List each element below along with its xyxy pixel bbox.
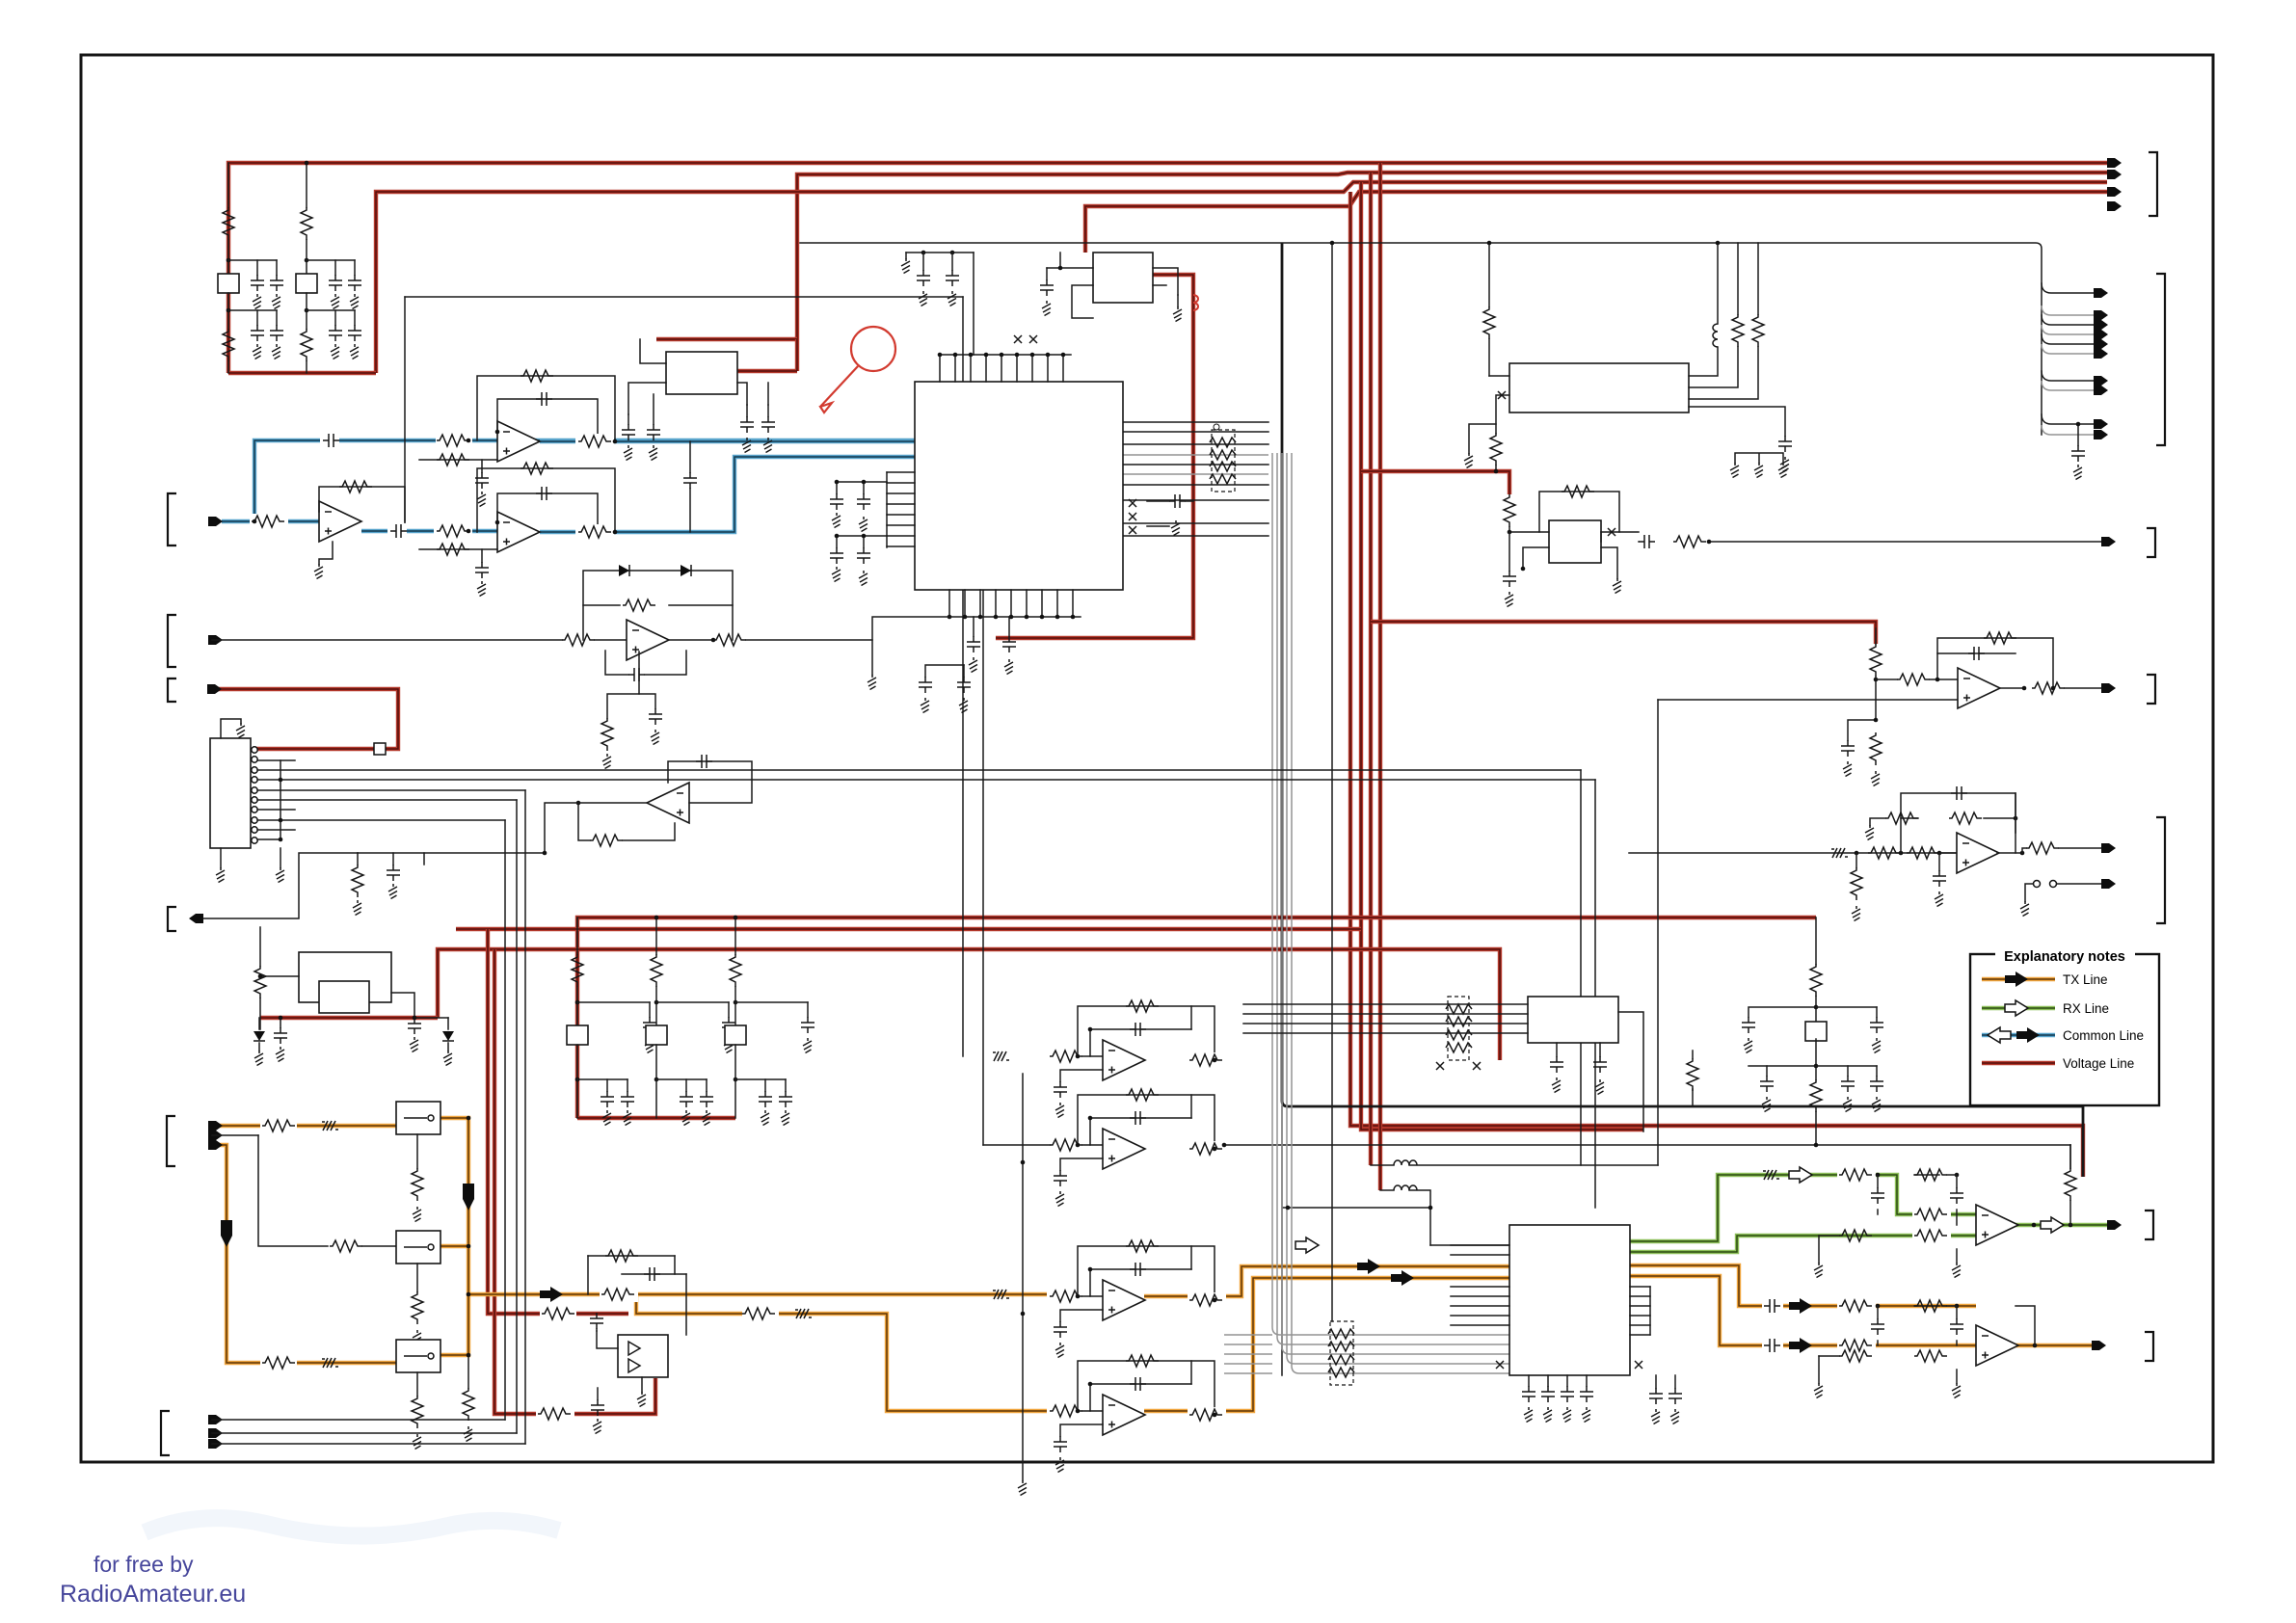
IC2 bottom caps [1655,1375,1657,1388]
tx cap B [1762,1338,1783,1353]
B7 left riser [588,1256,686,1335]
opampB out [1997,852,2022,854]
green plus resistor [1912,1228,1951,1243]
stage2 fb resistor loop [1078,1095,1215,1149]
xtal column 3 resistor [734,918,736,954]
rx line IC2 out A [1630,1175,1976,1241]
voltage line C left stub [260,1016,438,1020]
xtal column 3 crystal [725,1025,746,1045]
filter column 1 cap C1a [256,260,258,275]
CN1 pin wires [257,759,295,761]
green bead A [1763,1170,1779,1180]
right y1188 rail riser [2069,1145,2071,1168]
tx arrow into IC2 B [1391,1270,1414,1286]
stage2 fb cap loop [1090,1118,1191,1145]
resistor R20 [562,634,595,646]
xtal column 2 below [655,1045,657,1118]
regulator box B5 [299,952,391,1002]
tx out arrow [2092,1341,2106,1350]
U4 plus stub [607,652,639,718]
stage3 input resistor [1047,1289,1085,1304]
opampB gnd resistor [1855,851,1859,856]
filter column 2 mid junction [306,293,307,329]
B1 caps right [746,405,748,416]
long vertical x1382 [1331,243,1333,1321]
opampA [1958,668,2000,708]
resistor after U3 R14 [575,524,614,540]
opamp U3 [497,512,540,552]
filter column 1 cap C1c [256,310,258,325]
stage3 plus cap [1060,1310,1103,1321]
cap near B7 [597,1388,599,1399]
svg-text:Explanatory notes: Explanatory notes [2004,949,2125,965]
osc out resistor [1673,536,1706,547]
top cluster wire down [973,253,974,355]
xtal column 3 cap b [785,1079,787,1091]
filter column 2 cap C2b [354,260,356,275]
osc out arrow [2101,537,2116,546]
stage plus bus [1022,1074,1024,1480]
filter column 2 junction [305,258,309,263]
input bracket 2 [168,615,176,667]
tx in3 resistor R42 [260,1355,297,1370]
rx line final out [2015,1223,2114,1227]
xtal column 3 junction [734,1000,738,1005]
resistor on red y1467 [536,1406,574,1422]
tx input arrows [208,1121,223,1131]
opampB bracket [2156,817,2165,923]
xtal column 3 cap a [764,1079,766,1091]
osc fb resistor [1539,492,1619,532]
right filter crystal [1805,1022,1827,1041]
opampA fb cap [1937,653,2016,679]
IC1 main square IC [915,382,1123,590]
xtal column 2 top dot [654,916,659,920]
filter column 1 crystal [218,274,239,293]
B1 left pins [628,339,666,414]
opampA out [2000,687,2024,689]
wire W1 vertical [404,297,406,521]
voltage line riser to dual opamp [488,929,628,1314]
stage4 plus cap [1060,1424,1103,1436]
black bus branch continue [1281,1106,1283,1375]
IC2 right pin stubs [1630,1286,1650,1288]
opampA red feed resistor [1870,644,1882,677]
U4 fb cap [605,651,628,675]
opampA below net [1848,720,1876,740]
CN1 top gnd stub [221,719,241,738]
tx gnd resistor [1819,1355,1839,1357]
tx line switch1 out [441,1118,468,1355]
tx line switch2 out [441,1244,468,1248]
dots on blue [253,519,257,524]
tx cap A [1762,1298,1783,1314]
common line opamp3 out [540,457,915,532]
svg-text:Voltage Line: Voltage Line [2063,1056,2134,1071]
green out dots [2032,1223,2037,1228]
voltage line regulator top [656,337,797,341]
rx input wire to IC2 [1430,1244,1509,1246]
stage3 fb cap loop [1090,1269,1191,1296]
green out open arrow [2041,1217,2064,1233]
top red bus arrows [2107,158,2122,168]
xtal column 1 crystal [567,1025,588,1045]
xtal column 1 resistor [576,918,578,954]
CN1 bundle verticals [504,820,506,1420]
rail dots [1286,1206,1291,1211]
opampB fb cap loop [1901,793,2016,853]
xtal column 2 resistor [655,918,657,954]
opamp U2 feedback resistor [319,487,405,531]
U5 out left [358,803,647,853]
watermark squiggle [145,1518,559,1535]
stage1 opamp [1103,1040,1145,1080]
filter column 2 resistor R2a [306,163,307,207]
B7 fb resistor [588,1255,675,1257]
B8 wires [1243,1003,1528,1005]
resistor on red y1363 [540,1306,576,1321]
tx fb resistor [1914,1305,1939,1307]
opampA fb resistor [1937,638,2053,688]
input2 wire [212,1134,258,1136]
stage3 dots [1076,1294,1081,1299]
stage2 plus cap [1060,1158,1103,1170]
svg-text:for free by: for free by [93,1552,194,1577]
resistor R45 jog [742,1306,779,1321]
common line opamp1 out [540,439,915,443]
tx arrow A [1789,1298,1812,1314]
switch SW2 [396,1231,441,1264]
bead jog [795,1309,812,1318]
osc resistor top [1504,494,1515,527]
stage4 fb resistor loop [1078,1361,1215,1415]
IC3 gnd left [1469,424,1496,453]
wire to out arrow [198,853,358,918]
choke2 link [1380,1189,1394,1191]
opamp U4 [627,620,669,660]
voltage line to right opamp [1371,622,1876,644]
osc out [1601,531,1639,533]
switch SW1 [396,1102,441,1134]
bottom input wires [212,1419,505,1421]
stage1 fb resistor loop [1078,1006,1215,1060]
fan cap [2077,424,2079,445]
pack1 star dot [1214,424,1219,430]
tx out dot [2033,1344,2038,1348]
voltage line top bus 4 [1085,192,2107,253]
IC1 right x-marks [1129,499,1136,507]
red inductor on V-drop [1193,295,1198,310]
tx in resistor R40 [260,1118,297,1133]
tx plus resistor [1912,1348,1951,1364]
regulator B2 [1093,253,1153,303]
CN1 pins [252,747,257,753]
xtal column 1 side cap [649,1002,651,1017]
IC3 long box [1509,363,1689,412]
green opamp U7 [1976,1205,2018,1245]
xtal column 2 side cap [728,1002,730,1017]
choke2 symbol [1394,1185,1417,1190]
input arrow 2 [208,635,223,645]
tx fb gnds [1956,1370,1958,1383]
CN1 bus vertical [280,760,281,839]
stage1 out resistor [1188,1052,1226,1068]
resistor R21 gnd leg [601,718,613,751]
voltage line C [438,949,1500,1060]
IC1 bottom caps [973,617,974,636]
voltage line riser low [494,949,655,1414]
opamp B input wire [1629,852,1957,854]
filter column 2 resistor R2b [301,329,312,361]
tx line branch to stage4 [636,1294,1050,1411]
connector CN1 [210,738,251,848]
vertical x1720 [1657,700,1659,1165]
voltage line vertical V3 [1369,173,1373,1165]
stage1 plus cap [1060,1070,1103,1081]
legend common row [1982,1033,2055,1037]
IC2 left pin wires [1451,1244,1509,1246]
IC1 right cap [1147,500,1169,502]
right filter below [1815,1039,1817,1079]
voltage line A [577,918,1816,1118]
black after choke2 [1409,1190,1430,1245]
opampB input resistors [1868,847,1901,859]
xtal column 1 cap a [606,1079,608,1091]
IC1 right gnd [1147,525,1169,527]
cap after U2 [387,523,407,539]
U4 resistor feedback loop [583,604,733,606]
stage2 input wire [983,1144,1050,1146]
xtal column 1 cap b [627,1079,628,1091]
opampB plus cap [1938,853,1940,870]
out arrow left [189,914,203,923]
legend voltage row [1982,1061,2055,1065]
B2 caps [1047,267,1060,269]
long feedback wire W2 [1224,1144,2070,1146]
xtal column 1 junction [575,1000,580,1005]
blue input bracket [168,493,176,545]
trunk junction dots [467,1116,471,1121]
osc right gnd [1601,547,1617,578]
red input bracket [168,678,176,702]
opampB fb resistor [1901,817,2016,819]
osc bottom cap [1508,532,1510,571]
xtal column 3 top dot [734,916,738,920]
cap between blue lines [689,441,691,532]
black after choke1 [1409,1164,1658,1166]
B8 caps below [1556,1043,1558,1056]
rx line IC2 out B [1630,1236,1976,1252]
opamp U2 [319,501,361,542]
SW3 below resistor [416,1372,418,1396]
voltage line B [456,927,1361,931]
jack out arrow [2101,879,2116,889]
tx in bead [322,1121,338,1131]
tx line IC2 out B [1630,1276,1976,1345]
B7 pins [597,1331,618,1348]
IC1 left caps lower [837,536,887,547]
red annotation arrow [820,366,858,407]
pack2 network [1330,1321,1353,1385]
filter column 1 resistor R1b [223,329,234,361]
stage3 out resistor [1188,1292,1226,1308]
top black bus [800,243,2042,435]
stage4 dots [1076,1409,1081,1414]
dual opamp box B7 [618,1335,668,1377]
filter column 1 cap C1d [276,310,278,325]
resistor R41 [330,1240,362,1252]
right filter resistor Rb [1810,1079,1822,1112]
regulator inner box B6 [319,981,369,1013]
resistor after U1 R13 [575,434,614,449]
long wire from IC1 pin [982,590,984,1145]
IC1 left pin comb [887,471,915,473]
pack3 network [1448,997,1469,1060]
diode D30 [254,1031,265,1041]
resistor R11 [250,514,288,529]
resistor R30 [259,927,261,966]
legend tx row [1982,977,2055,981]
IC3 stub bottom left [1496,395,1509,433]
opamp U1 plus network [419,459,497,461]
tx line stage4 out [1144,1278,1509,1411]
resistor R12 [434,523,472,539]
stage3 fb resistor loop [1078,1246,1215,1300]
top bus fan wires [2042,283,2094,293]
cap on upper blue [320,433,339,448]
bead on trunk [993,1290,1009,1299]
xtal column 2 junction [654,1000,659,1005]
stage2 out to W2 [1222,1143,1227,1148]
svg-text:RadioAmateur.eu: RadioAmateur.eu [60,1581,246,1608]
opamp U5 [647,783,689,823]
opampB out arrow [2101,843,2116,853]
voltage line IC1 right drop [996,275,1193,638]
bottom input bracket [161,1411,170,1455]
extra resistor R43 [467,1355,469,1388]
input wire y664 [212,639,562,641]
osc box B4 [1549,520,1601,563]
voltage line loop bottom left [228,371,376,375]
tx line IC2 out A [1630,1265,1976,1306]
stage4 opamp [1103,1395,1145,1435]
CN1 long wire downlinks [1580,770,1582,1165]
IC2 x-marks [1496,1361,1504,1369]
voltage line vertical V1 [1350,192,2083,1177]
IC1 bottom cap pair 2 [925,665,964,677]
opamp U3 plus network [419,548,497,550]
out bracket [168,907,176,931]
right filter column vertical [1815,918,1817,964]
tx line input1 [212,1124,396,1128]
regulator B1 [666,352,737,394]
tx line trunk [468,1292,1050,1296]
tx in3 bead [322,1358,338,1368]
svg-text:TX Line: TX Line [2063,972,2108,987]
B5 left pin [260,975,299,977]
tx riser to fb rail [2016,1306,2035,1345]
B7 fb cap [622,1273,686,1275]
U4 output [669,639,713,641]
tx arrow trunk [540,1287,563,1302]
rx open arrow into IC2 [1295,1237,1319,1253]
tx arrow into IC2 A [1357,1259,1380,1274]
voltage line input left [210,689,398,749]
tx resistor B [1837,1338,1876,1353]
IC2 big box [1509,1225,1630,1375]
green junction caps [1876,1173,1881,1178]
IC1 bottom pin comb [948,590,950,617]
opamp U1 feedback resistor loop [477,376,615,441]
stage1 input resistor [1047,1049,1085,1064]
IC1 top pin comb [939,355,941,382]
top cluster caps [906,252,974,253]
stage1 input bead [993,1051,1009,1061]
stage3 opamp [1103,1280,1145,1320]
opamp U3 feedback resistor loop [477,468,615,532]
U5 resistor in [590,835,623,846]
IC1 right pin wires [1123,421,1268,423]
fan bracket [2156,274,2165,445]
stage4 out resistor [1188,1407,1226,1423]
opamp U2 gnd [319,542,333,564]
fb rail [1692,1089,1694,1106]
stage2 out resistor [1188,1141,1226,1157]
tx input bracket [167,1116,175,1166]
jack contacts [2034,881,2041,888]
IC3 right risers [1689,347,1718,376]
voltage line to oscillator [1361,471,1509,494]
IC3 right cap [1689,407,1785,436]
red annotation circle [851,327,895,371]
resistor R44 on trunk [600,1287,638,1302]
xtal column 2 cap a [685,1079,687,1091]
tx big arrow on in3 [221,1220,232,1247]
osc left pins [1509,532,1549,569]
tx line final out [2015,1344,2098,1347]
svg-text:RX Line: RX Line [2063,1001,2109,1016]
filter column 2 cap C2c [334,310,336,325]
green bracket [2145,1211,2153,1239]
filter column 1 cap C1b [276,260,278,275]
choke1 link [1371,1164,1394,1166]
pack1 resistor network [1212,430,1235,492]
stage2 dots [1076,1143,1081,1148]
IC1 xtal x-marks [1014,335,1022,343]
green resistor B [1912,1207,1951,1222]
stage4 input resistor [1047,1403,1085,1419]
black bus branch vertical [1282,243,2083,1177]
rx arrow A [1789,1167,1812,1183]
tx line stage3 out [1144,1266,1509,1296]
B2 left pins [1060,253,1093,318]
tx big arrow on trunk [463,1184,474,1211]
opampB [1957,833,1999,873]
tx opamp U6 [1976,1325,2018,1366]
opamp U1 [497,421,540,462]
B2 right pins [1153,268,1178,295]
choke1 symbol [1394,1160,1417,1165]
stage2 opamp [1103,1129,1145,1169]
common line lower input [222,519,319,523]
zener D31 [442,1031,454,1041]
stage4 fb cap loop [1090,1384,1191,1411]
right filter left caps [1749,1007,1816,1017]
B8 xmarks [1436,1062,1444,1070]
tx bracket [2145,1332,2153,1361]
tx arrow B [1789,1338,1812,1353]
bottom input arrows [208,1415,223,1424]
